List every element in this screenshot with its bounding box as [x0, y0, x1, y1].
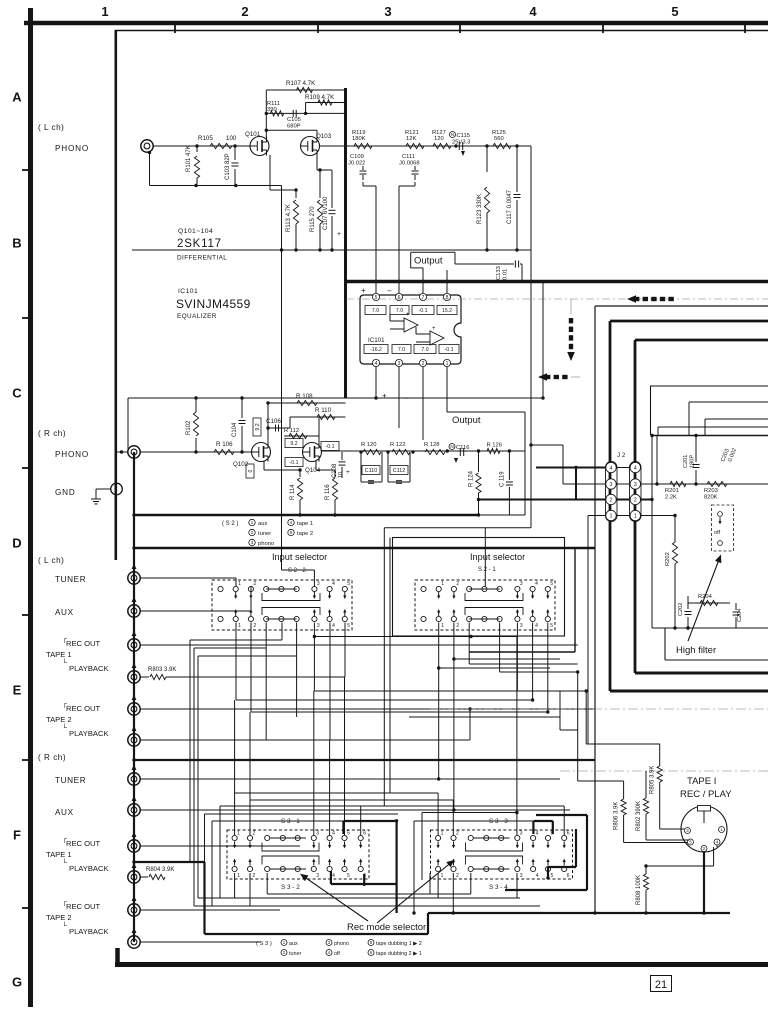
wire output L right: [455, 263, 514, 265]
resistor R111 and capacitor C105: [266, 112, 347, 114]
svg-text:1: 1: [238, 623, 241, 629]
resistor R108: [268, 402, 346, 404]
svg-text:R101 47K: R101 47K: [186, 145, 192, 172]
svg-text:C: C: [12, 386, 22, 401]
svg-text:3: 3: [398, 361, 401, 367]
svg-text:12K: 12K: [406, 136, 416, 142]
inner frame top line: [115, 30, 768, 32]
wire filter mid rail y483: [657, 483, 768, 485]
svg-text:D: D: [12, 536, 21, 551]
svg-text:560: 560: [494, 136, 504, 142]
right enclosure thin frame: [595, 305, 768, 307]
svg-text:R204: R204: [698, 594, 713, 600]
svg-text:R805 3.9K: R805 3.9K: [650, 766, 656, 794]
svg-text:+: +: [337, 231, 341, 238]
wire pin4 to R808: [646, 865, 714, 867]
svg-text:TAPE I: TAPE I: [687, 776, 716, 787]
svg-text:4: 4: [535, 623, 538, 629]
selector drop wires S2-2: [235, 623, 237, 701]
svg-text:└: └: [62, 858, 67, 867]
svg-text:5: 5: [550, 623, 553, 629]
svg-text:C 119: C 119: [499, 471, 505, 487]
svg-text:( R ch): ( R ch): [38, 429, 66, 438]
svg-text:aux: aux: [258, 521, 267, 527]
svg-text:R802 390K: R802 390K: [636, 801, 642, 831]
wire Q104 drain: [318, 417, 320, 443]
svg-text:N: N: [451, 132, 454, 137]
switch S2-2: [212, 580, 352, 630]
svg-text:1: 1: [441, 873, 444, 879]
svg-text:6: 6: [398, 295, 401, 301]
svg-text:3: 3: [316, 831, 319, 837]
svg-text:5: 5: [347, 581, 350, 587]
svg-text:8: 8: [446, 295, 449, 301]
resistor R806: [578, 780, 624, 782]
resistor R804: [140, 876, 148, 878]
svg-text:+: +: [406, 312, 410, 318]
svg-text:2: 2: [610, 497, 613, 503]
svg-text:┌: ┌: [62, 836, 67, 843]
svg-text:2: 2: [241, 4, 248, 19]
svg-text:REC OUT: REC OUT: [66, 902, 101, 911]
svg-text:1: 1: [610, 513, 613, 519]
svg-text:aux: aux: [289, 941, 298, 947]
faint reference line y299: [346, 298, 768, 300]
J2 left jog pin4 to pin2: [575, 468, 577, 500]
svg-text:2: 2: [422, 361, 425, 367]
thick bus step: [427, 913, 429, 934]
jack aux L: [128, 605, 140, 617]
svg-text:C116: C116: [456, 445, 469, 451]
svg-text:7: 7: [422, 295, 425, 301]
capacitor C107: [331, 170, 333, 208]
thick wire DIN pin2 ground: [703, 852, 705, 914]
jack tuner R: [128, 773, 140, 785]
resistor R115: [316, 155, 318, 170]
svg-text:REC / PLAY: REC / PLAY: [680, 789, 732, 800]
svg-text:7.0: 7.0: [396, 308, 403, 314]
svg-text:3: 3: [520, 873, 523, 879]
svg-text:High filter: High filter: [676, 645, 716, 656]
ground symbol: [96, 488, 111, 490]
resistor R121: [406, 143, 424, 148]
wire tape2 playback R: [140, 941, 260, 943]
switch dashed box off: [712, 505, 734, 551]
svg-text:G: G: [12, 975, 22, 990]
jack tape2 playback L: [128, 734, 140, 746]
wire bus drop x543: [542, 283, 544, 398]
svg-text:E: E: [13, 683, 22, 698]
svg-text:REC OUT: REC OUT: [66, 839, 101, 848]
svg-text:N: N: [450, 444, 453, 449]
resistor R116: [334, 470, 336, 477]
wire S2-1 pin3 feed: [484, 528, 486, 587]
svg-text:3: 3: [520, 581, 523, 587]
svg-text:REC OUT: REC OUT: [66, 704, 101, 713]
svg-text:DIFFERENTIAL: DIFFERENTIAL: [177, 255, 227, 262]
jack tape1 playback R: [128, 871, 140, 883]
wire ground drop to bus: [132, 249, 531, 251]
svg-text:15.2: 15.2: [442, 308, 452, 314]
voltage box -0.1 lower: [285, 458, 303, 467]
svg-text:C104: C104: [232, 422, 238, 437]
selector drop wires S2-1: [438, 623, 440, 780]
capacitor C117: [516, 146, 518, 192]
switch S3-1/S3-2: [227, 830, 369, 879]
svg-text:2: 2: [253, 873, 256, 879]
svg-text:C133: C133: [496, 266, 502, 280]
svg-text:( S 2 ): ( S 2 ): [222, 521, 238, 527]
capacitor C106: [268, 427, 290, 429]
jack phono R: [128, 446, 140, 458]
svg-text:-0.1: -0.1: [445, 347, 454, 353]
svg-text:2: 2: [253, 581, 256, 587]
svg-text:phono: phono: [258, 541, 274, 547]
svg-text:S 2 - 1: S 2 - 1: [478, 567, 496, 573]
svg-text:4: 4: [610, 465, 613, 471]
svg-text:REC OUT: REC OUT: [66, 639, 101, 648]
svg-text:TAPE 2: TAPE 2: [46, 715, 72, 724]
wire phono R stage 2: [321, 450, 509, 452]
svg-text:Q101: Q101: [245, 131, 261, 138]
rec mode selector arrow left: [302, 875, 368, 921]
wire drops below S3: [234, 873, 236, 898]
op-amp triangle B: [430, 331, 444, 345]
svg-text:C201: C201: [683, 455, 689, 468]
resistor R803: [140, 676, 149, 678]
svg-text:tuner: tuner: [289, 951, 301, 957]
svg-text:Input selector: Input selector: [272, 552, 327, 562]
resistor R106: [214, 449, 234, 454]
svg-text:1: 1: [237, 873, 240, 879]
row tick marks: [22, 169, 30, 171]
svg-text:( L ch): ( L ch): [38, 556, 64, 565]
wire Q102 source: [263, 461, 265, 470]
svg-text:( S 3 ): ( S 3 ): [256, 941, 272, 947]
capacitor C133: [514, 261, 516, 268]
svg-text:R115 270: R115 270: [310, 206, 316, 232]
svg-text:PLAYBACK: PLAYBACK: [69, 864, 109, 873]
capacitor C204: [735, 603, 737, 610]
svg-text:3: 3: [317, 623, 320, 629]
svg-text:2: 2: [251, 530, 254, 535]
svg-text:180K: 180K: [352, 136, 366, 142]
svg-text:2: 2: [253, 623, 256, 629]
wire filter bottom rail y628: [652, 627, 768, 629]
svg-text:2: 2: [253, 831, 256, 837]
svg-text:4: 4: [535, 581, 538, 587]
svg-text:0: 0: [248, 469, 254, 472]
svg-text:120: 120: [434, 136, 444, 142]
svg-text:EQUALIZER: EQUALIZER: [177, 313, 217, 320]
svg-text:R201: R201: [665, 488, 679, 494]
svg-text:tape dubbing 1 ▶ 2: tape dubbing 1 ▶ 2: [376, 941, 422, 947]
svg-text:2.2K: 2.2K: [665, 495, 677, 501]
svg-text:C115: C115: [457, 133, 470, 139]
resistor R805: [659, 744, 661, 766]
svg-text:+: +: [346, 469, 350, 476]
svg-text:R804 3.9K: R804 3.9K: [146, 867, 174, 873]
capacitor C119: [508, 451, 510, 480]
svg-text:R109 4.7K: R109 4.7K: [305, 94, 335, 101]
jack tape2 playback R: [128, 936, 140, 948]
routing below S3 left: [212, 905, 540, 907]
svg-text:└: └: [62, 658, 67, 667]
wire tuner R: [140, 778, 560, 780]
svg-text:C106: C106: [266, 418, 281, 425]
J2 row4 bridge: [617, 467, 631, 469]
svg-text:1: 1: [101, 4, 108, 19]
capacitor C115: [450, 132, 456, 138]
DIN connector TAPE1: [681, 806, 727, 852]
svg-text:C110: C110: [365, 468, 378, 474]
svg-text:100: 100: [226, 135, 237, 142]
voltage box 9.2: [285, 439, 303, 448]
svg-text:R 108: R 108: [296, 393, 313, 400]
IC101 voltage boxes row1: [365, 306, 386, 315]
svg-text:4: 4: [529, 4, 537, 19]
resistor R128: [425, 449, 445, 454]
thick ground bus y548: [134, 547, 595, 549]
svg-text:( R ch): ( R ch): [38, 753, 66, 762]
voltage box -0.1 right: [321, 442, 339, 451]
wire phono L feed: [281, 250, 283, 570]
J2 wires left side: [536, 467, 606, 469]
jack tape2 rec out R: [128, 904, 140, 916]
svg-text:Input selector: Input selector: [470, 552, 525, 562]
svg-text:phono: phono: [334, 941, 349, 947]
wire tape1 playback L: [166, 676, 345, 678]
svg-text:IC101: IC101: [178, 288, 198, 295]
svg-text:4: 4: [332, 873, 335, 879]
svg-text:1: 1: [251, 520, 254, 525]
svg-text:180P: 180P: [690, 455, 696, 468]
input jack shield bus wire: [133, 452, 135, 942]
svg-text:R 124: R 124: [469, 470, 475, 487]
svg-text:7.0: 7.0: [421, 347, 428, 353]
resistor R202: [674, 516, 676, 543]
resistor R126: [487, 448, 500, 453]
svg-text:off: off: [714, 530, 721, 536]
svg-text:-0.1: -0.1: [326, 444, 335, 450]
wire rec feed y636: [314, 636, 517, 638]
jack tape1 playback L: [128, 671, 140, 683]
svg-text:R105: R105: [198, 135, 213, 142]
wire bundle left of selector: [383, 528, 385, 806]
transistor Q103: [301, 137, 320, 156]
transistor Q101: [250, 137, 269, 156]
svg-text:R113 4.7K: R113 4.7K: [286, 204, 292, 232]
wire Q104 source: [315, 461, 317, 470]
svg-text:4: 4: [375, 361, 378, 367]
svg-text:C204: C204: [737, 609, 743, 622]
wire aux R: [140, 809, 570, 811]
svg-text:R 116: R 116: [325, 484, 331, 500]
svg-text:Q101~104: Q101~104: [178, 228, 213, 235]
svg-text:C111: C111: [402, 154, 415, 160]
resistor R124: [478, 451, 480, 472]
svg-text:4: 4: [332, 623, 335, 629]
svg-text:+: +: [361, 286, 366, 295]
capacitor C201: [695, 435, 697, 462]
wire tape1 rec out R: [140, 845, 300, 847]
svg-text:4: 4: [634, 465, 637, 471]
jack aux R: [128, 804, 140, 816]
op-amp triangle A: [404, 318, 418, 332]
resistor R107: [266, 89, 345, 91]
svg-text:J0.022: J0.022: [348, 161, 365, 167]
capacitor C110: [360, 452, 362, 482]
svg-text:B: B: [12, 236, 21, 251]
svg-text:S 3 - 2: S 3 - 2: [281, 884, 300, 891]
border left bar: [28, 8, 33, 1007]
svg-text:R 126: R 126: [487, 443, 502, 449]
svg-text:( L ch): ( L ch): [38, 123, 64, 132]
border ruler top line: [24, 21, 768, 26]
svg-text:┌: ┌: [62, 899, 67, 906]
svg-text:2: 2: [456, 831, 459, 837]
IC101 bottom pins: [372, 359, 379, 366]
thick ground bus y913: [428, 912, 730, 914]
svg-text:9.2: 9.2: [290, 441, 297, 447]
jack tape1 rec out L: [128, 639, 140, 651]
wire phono R input: [140, 451, 253, 453]
long wire x585 to R805: [586, 743, 660, 745]
wire tape1 rec out L: [140, 644, 578, 646]
jack tape2 rec out L: [128, 703, 140, 715]
selector enclosure box: [393, 538, 565, 637]
svg-text:6: 6: [363, 831, 366, 837]
capacitor C104: [241, 426, 243, 452]
jack GND terminal: [111, 483, 123, 495]
thick ground bus y760: [134, 759, 595, 761]
svg-text:−: −: [387, 287, 392, 296]
IC101 top pins: [372, 293, 379, 300]
svg-text:5: 5: [375, 295, 378, 301]
svg-text:R803 3.9K: R803 3.9K: [148, 667, 176, 673]
resistor R101: [196, 146, 198, 152]
svg-text:2SK117: 2SK117: [177, 238, 222, 250]
wires entering from right top: [689, 401, 768, 403]
wire Q101 drain up: [265, 90, 267, 138]
svg-text:R102: R102: [186, 420, 192, 435]
svg-text:R123 330K: R123 330K: [477, 194, 483, 224]
svg-text:PLAYBACK: PLAYBACK: [69, 729, 109, 738]
thick jumpers S3-4 right: [536, 814, 587, 816]
svg-text:C112: C112: [393, 468, 406, 474]
resistor R119: [354, 143, 372, 148]
svg-text:-0.1: -0.1: [419, 308, 428, 314]
svg-text:TAPE 2: TAPE 2: [46, 913, 72, 922]
svg-text:C107 6V100: C107 6V100: [323, 196, 329, 230]
inner frame left line: [115, 30, 118, 560]
wire tape2 playback L: [140, 739, 330, 741]
svg-text:└: └: [62, 723, 67, 732]
svg-text:C202: C202: [678, 603, 684, 616]
rec mode selector arrow right: [377, 861, 453, 923]
dashed arrow left y377: [538, 373, 547, 381]
wire L output to selector feed: [384, 527, 531, 529]
capacitor C103: [234, 146, 236, 160]
jack tuner L: [128, 572, 140, 584]
svg-text:1: 1: [441, 831, 444, 837]
svg-text:A: A: [12, 90, 22, 105]
svg-text:5: 5: [550, 581, 553, 587]
wire output R: [447, 411, 525, 413]
filter switch lever arrow: [688, 557, 720, 641]
svg-text:J0.0068: J0.0068: [399, 161, 420, 167]
svg-text:7.0: 7.0: [372, 308, 379, 314]
svg-text:1: 1: [441, 581, 444, 587]
svg-text:3: 3: [384, 4, 391, 19]
svg-text:PHONO: PHONO: [55, 450, 89, 459]
resistor R203: [707, 481, 727, 486]
resistor R102: [195, 438, 197, 452]
right enclosure thick frame B: [635, 339, 768, 342]
jack tape1 rec out R: [128, 840, 140, 852]
svg-text:3: 3: [610, 482, 613, 488]
svg-text:R806 3.9K: R806 3.9K: [613, 802, 619, 830]
svg-text:PLAYBACK: PLAYBACK: [69, 664, 109, 673]
dashed arrow left at y299: [627, 295, 636, 303]
wire output right drop: [530, 146, 532, 250]
svg-text:R 114: R 114: [290, 484, 296, 500]
svg-text:C105: C105: [287, 117, 301, 123]
transistor Q104: [303, 443, 322, 462]
svg-text:-16.2: -16.2: [370, 347, 382, 353]
svg-text:C117 0.0047: C117 0.0047: [507, 189, 513, 224]
svg-text:PLAYBACK: PLAYBACK: [69, 927, 109, 936]
connector J2 column A: [606, 462, 618, 522]
resistor R112: [284, 435, 319, 437]
capacitor C108: [341, 452, 343, 460]
svg-text:tape dubbing 2 ▶ 1: tape dubbing 2 ▶ 1: [376, 951, 422, 957]
switch S2-1: [415, 580, 555, 630]
svg-text:2: 2: [634, 497, 637, 503]
svg-text:820K: 820K: [704, 495, 718, 501]
routing loops around S3 right: [414, 820, 533, 822]
svg-text:21: 21: [655, 979, 667, 991]
IC101 bottom pin wires: [375, 367, 377, 398]
svg-text:3: 3: [251, 540, 254, 545]
svg-text:R 128: R 128: [424, 442, 439, 448]
svg-text:6: 6: [567, 831, 570, 837]
routing feed lines S3 right: [235, 792, 439, 794]
resistor R125: [493, 143, 511, 148]
C119 return loop: [509, 450, 525, 452]
voltage box 0 vertical: [246, 464, 254, 478]
svg-text:IC101: IC101: [368, 337, 385, 344]
resistor R110: [290, 416, 346, 418]
resistor R105: [210, 143, 232, 148]
svg-text:1: 1: [634, 513, 637, 519]
svg-text:25V3.3: 25V3.3: [452, 140, 470, 146]
svg-text:4: 4: [332, 581, 335, 587]
resistor R120: [363, 449, 381, 454]
wire phono L ground return: [148, 151, 151, 154]
wire Q103 drain link: [266, 129, 317, 131]
svg-text:C109: C109: [350, 154, 364, 160]
svg-text:5: 5: [347, 623, 350, 629]
svg-text:5: 5: [551, 873, 554, 879]
resistor R113: [269, 155, 271, 190]
junction wires below selector: [454, 658, 560, 660]
svg-text:PHONO: PHONO: [55, 144, 89, 153]
svg-text:4: 4: [332, 831, 335, 837]
svg-text:0.01: 0.01: [503, 269, 509, 280]
svg-text:TAPE 1: TAPE 1: [46, 850, 72, 859]
switch S3-3/S3-4: [431, 830, 573, 879]
